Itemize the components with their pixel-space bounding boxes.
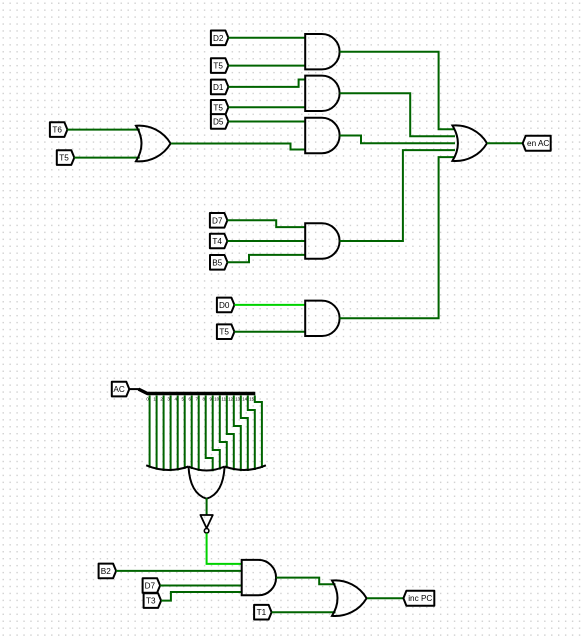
wire T4 to U5 bbox=[227, 240, 305, 242]
input label D7 (b) bbox=[143, 578, 161, 593]
wire D2 to U1 bbox=[228, 37, 305, 39]
wire U9 out to U10 (logic high) bbox=[207, 533, 242, 564]
input label T1 bbox=[254, 605, 272, 620]
svg-text:B5: B5 bbox=[212, 258, 222, 267]
input label D2 bbox=[211, 31, 229, 46]
input label T5 (d) bbox=[217, 324, 235, 339]
wire U2 out to U7 bbox=[340, 93, 455, 136]
wire U5 out to U7 bbox=[340, 150, 455, 241]
wire T5b to U2 bbox=[228, 106, 305, 108]
input label T5 (a) bbox=[211, 58, 229, 73]
wire U1 out to U7 bbox=[340, 52, 455, 130]
input label T6 bbox=[50, 122, 68, 137]
wire T6 to U4 bbox=[67, 129, 139, 131]
and-gate U2 (D1.T5) bbox=[305, 76, 339, 111]
inverter U9 (NOT gate) bbox=[200, 515, 212, 533]
wire U8 out to inverter bbox=[206, 498, 208, 515]
wire U4 out to U3 bbox=[171, 144, 305, 150]
bus wire AC to splitter SP1 bbox=[129, 389, 255, 393]
svg-text:D2: D2 bbox=[213, 34, 224, 43]
output label en AC bbox=[523, 136, 551, 151]
svg-text:B2: B2 bbox=[101, 567, 111, 576]
wire T5d to U6 bbox=[234, 331, 305, 333]
svg-text:D7: D7 bbox=[212, 216, 223, 225]
svg-text:AC: AC bbox=[113, 385, 124, 394]
svg-text:14: 14 bbox=[242, 396, 247, 401]
wire D5 to U3 bbox=[228, 121, 305, 123]
wire T5c to U4 bbox=[74, 157, 140, 159]
svg-text:T5: T5 bbox=[219, 328, 229, 337]
input label D7 (a) bbox=[210, 213, 228, 228]
and-gate U10 (4-input) bbox=[242, 560, 276, 595]
wire U7 out to en AC bbox=[487, 142, 522, 144]
wire B2 to U10 bbox=[116, 570, 242, 572]
splitter SP1 bit wires (AC[0..15]) bbox=[150, 396, 262, 472]
or-gate U4 (T6+T5) bbox=[136, 126, 171, 162]
and-gate U5 (D7.T4.B5) bbox=[305, 223, 339, 258]
wire D7b to U10 bbox=[160, 585, 242, 587]
wire T5a to U1 bbox=[228, 65, 305, 67]
wire T1 to U11 bbox=[272, 611, 336, 613]
svg-text:D1: D1 bbox=[213, 83, 224, 92]
input label T3 bbox=[144, 593, 162, 608]
svg-text:D0: D0 bbox=[219, 301, 230, 310]
input label D0 bbox=[217, 298, 235, 313]
or-gate U8 (16-input wide, facing down) bbox=[146, 465, 266, 498]
splitter SP1 bit number labels bbox=[146, 396, 254, 401]
svg-text:T1: T1 bbox=[257, 608, 267, 617]
svg-text:13: 13 bbox=[235, 396, 240, 401]
svg-text:10: 10 bbox=[214, 396, 219, 401]
svg-text:inc PC: inc PC bbox=[408, 594, 432, 603]
svg-text:T5: T5 bbox=[59, 154, 69, 163]
input label D1 bbox=[211, 80, 229, 95]
svg-text:D5: D5 bbox=[213, 117, 224, 126]
input label B5 bbox=[210, 255, 228, 270]
input label T4 bbox=[210, 234, 228, 249]
input label T5 (b) bbox=[211, 100, 229, 115]
svg-text:T6: T6 bbox=[52, 126, 62, 135]
input label D5 bbox=[211, 114, 229, 129]
input label B2 bbox=[99, 564, 117, 579]
input label AC bbox=[112, 382, 130, 397]
wire D7a to U5 bbox=[227, 220, 305, 227]
svg-text:en AC: en AC bbox=[527, 139, 549, 148]
svg-text:T3: T3 bbox=[146, 597, 156, 606]
svg-text:T5: T5 bbox=[213, 62, 223, 71]
wire B5 to U5 bbox=[228, 255, 306, 262]
input label T5 (c) bbox=[57, 150, 75, 165]
or-gate U11 (2-input) bbox=[332, 580, 367, 616]
output label inc PC bbox=[403, 591, 434, 606]
wire U10 out to U11 bbox=[276, 578, 335, 585]
svg-text:T4: T4 bbox=[212, 237, 222, 246]
and-gate U6 (D0.T5) bbox=[305, 301, 339, 336]
wire D0 to U6 (logic high) bbox=[234, 304, 305, 306]
wire U3 out to U7 bbox=[340, 136, 455, 144]
and-gate U1 (D2.T5) bbox=[305, 34, 339, 69]
svg-text:11: 11 bbox=[222, 396, 227, 401]
wire D1 to U2 bbox=[228, 80, 305, 87]
wire U6 out to U7 bbox=[340, 157, 455, 318]
or-gate U7 (5-input) bbox=[452, 125, 487, 161]
wire U11 out to inc PC bbox=[367, 597, 403, 599]
svg-text:15: 15 bbox=[249, 396, 254, 401]
svg-text:D7: D7 bbox=[145, 582, 156, 591]
and-gate U3 (D5.(T6+T5)) bbox=[305, 118, 339, 153]
wire T3 to U10 bbox=[161, 592, 242, 601]
svg-text:T5: T5 bbox=[213, 103, 223, 112]
svg-text:12: 12 bbox=[228, 396, 233, 401]
